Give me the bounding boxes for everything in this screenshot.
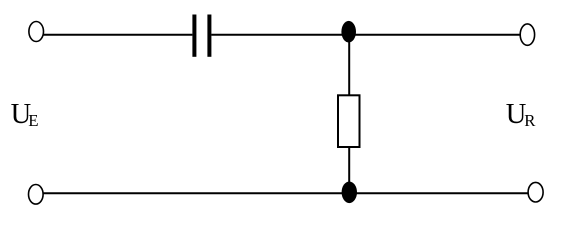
svg-text:R: R (524, 111, 536, 130)
svg-text:E: E (28, 111, 38, 130)
svg-text:U: U (506, 99, 527, 130)
